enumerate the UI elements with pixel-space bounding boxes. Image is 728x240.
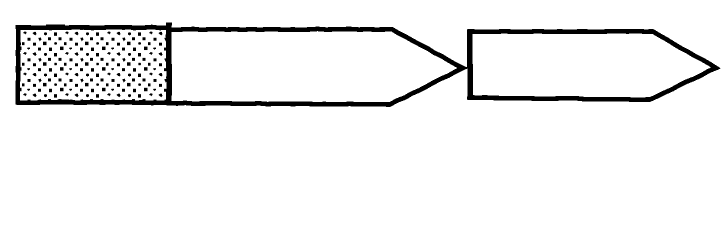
stippled 5' leader rectangle — [18, 27, 169, 103]
bulge on top border of stippled rectangle — [46, 24, 65, 27]
divider line between stippled box and arrow body — [166, 23, 172, 104]
gene arrow ORF1 (large pentagon arrow) — [169, 29, 463, 105]
left edge of second arrow (thicker) — [467, 30, 473, 100]
gene arrow ORF2 (right pentagon arrow) — [470, 31, 716, 100]
